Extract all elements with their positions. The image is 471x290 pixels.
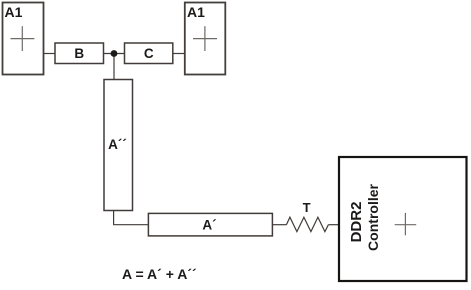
svg-text:A1: A1	[5, 4, 23, 20]
svg-text:A´´: A´´	[108, 137, 127, 152]
svg-text:B: B	[74, 46, 84, 61]
svg-text:Controller: Controller	[365, 184, 381, 251]
svg-text:DDR2: DDR2	[348, 202, 365, 243]
svg-text:A = A´ + A´´: A = A´ + A´´	[122, 266, 197, 282]
svg-text:C: C	[144, 46, 154, 61]
svg-text:T: T	[303, 200, 311, 215]
svg-text:A1: A1	[187, 4, 205, 20]
svg-text:A´: A´	[202, 218, 216, 233]
